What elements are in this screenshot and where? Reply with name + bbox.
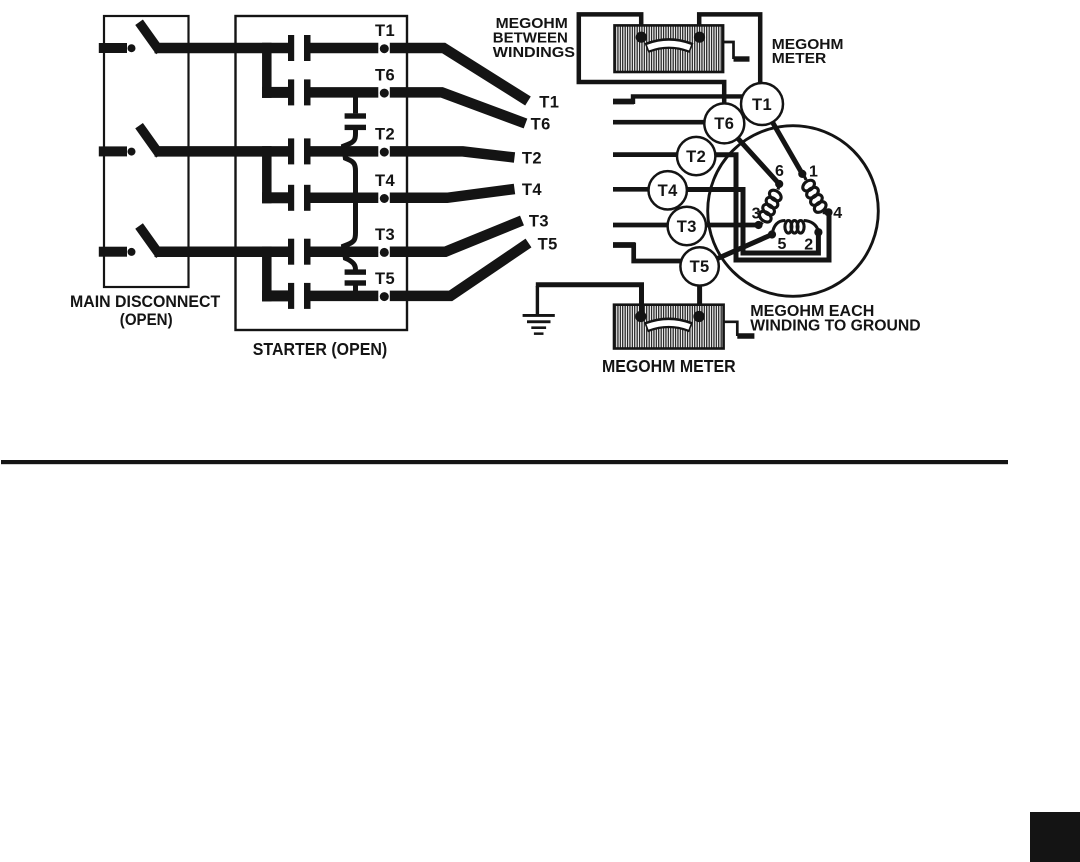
svg-text:STARTER (OPEN): STARTER (OPEN) — [253, 339, 387, 359]
capacitor C2 top plate — [345, 269, 366, 274]
wire T2 from switch to contact — [155, 146, 290, 157]
svg-text:T1: T1 — [539, 93, 559, 111]
terminal dot on line T5 — [378, 289, 380, 302]
megohm meter (bottom) right terminal dot — [693, 311, 704, 322]
main disconnect box — [104, 16, 189, 287]
contact T5 right bar — [304, 283, 311, 309]
winding coil 5-2 loops — [785, 221, 804, 234]
winding coil 1-4 entry tail — [802, 174, 806, 180]
capacitor C1 bottom plate — [345, 125, 366, 130]
test lead wire T5 stub — [613, 242, 635, 248]
svg-text:T2: T2 — [375, 126, 395, 144]
test lead wire T1 stub — [613, 99, 634, 105]
contact T1 right bar — [304, 35, 311, 61]
top meter probe tip — [734, 56, 750, 61]
branch wire T3 line down to T5 contact — [262, 246, 272, 301]
wire T1 from switch to contact — [155, 43, 290, 54]
svg-text:T2: T2 — [686, 148, 706, 166]
wire ground to bottom meter left terminal — [536, 286, 539, 314]
svg-text:WINDING TO GROUND: WINDING TO GROUND — [750, 318, 920, 335]
svg-text:T5: T5 — [538, 235, 558, 253]
svg-text:T4: T4 — [375, 172, 395, 190]
lead T4 to right — [390, 189, 515, 198]
test lead wire T1 step and run to circle T1 — [633, 96, 745, 104]
top meter probe wire — [724, 42, 734, 59]
svg-text:T1: T1 — [375, 22, 395, 40]
svg-text:T3: T3 — [677, 218, 697, 236]
svg-text:T4: T4 — [522, 181, 542, 199]
capacitor C2 bottom plate — [345, 280, 366, 285]
svg-text:MEGOHM: MEGOHM — [496, 16, 568, 32]
svg-text:(OPEN): (OPEN) — [120, 311, 173, 329]
branch wire T2 line down to T4 contact — [262, 146, 272, 203]
wire T4 contact to terminal dot — [310, 193, 380, 204]
capacitor C1 top plate — [345, 113, 366, 118]
wire: top meter right terminal loop to circle T1 — [699, 14, 760, 85]
wire circle T2 down and around to winding terminal 4 — [696, 155, 829, 260]
megohm meter (top) scale arc — [647, 44, 692, 49]
svg-text:T6: T6 — [531, 115, 551, 133]
winding coil 6-3 entry tail — [778, 184, 779, 190]
megohm meter (bottom) left terminal dot — [635, 311, 646, 322]
wire circle T5 down to bottom meter — [697, 266, 702, 317]
terminal dot on line T1 — [378, 42, 380, 55]
svg-text:5: 5 — [778, 236, 787, 253]
page corner black block — [1030, 812, 1080, 862]
branch wire T1 line down to T6 contact — [262, 43, 272, 98]
contact T3 left bar — [288, 239, 294, 265]
svg-text:T2: T2 — [522, 149, 542, 167]
winding coil 1-4 — [801, 178, 828, 214]
terminal dot on line T4 — [378, 191, 380, 204]
wire T6 contact to terminal dot — [310, 87, 380, 98]
lead T6 to right — [390, 92, 526, 123]
contact T6 right bar — [304, 79, 311, 105]
svg-text:T1: T1 — [752, 96, 772, 114]
megohm meter (top) right terminal dot — [694, 32, 705, 43]
motor stator circle — [708, 126, 879, 297]
svg-text:T5: T5 — [690, 258, 710, 276]
horizontal rule under figure — [1, 460, 1008, 464]
svg-text:4: 4 — [833, 205, 842, 222]
svg-text:T4: T4 — [658, 182, 678, 200]
terminal dot on line T6 — [378, 86, 380, 99]
lead T5 to right — [390, 243, 529, 296]
wire T3 from switch to contact — [155, 246, 290, 257]
test point circle T4 — [649, 171, 687, 209]
megohm meter (top) hatched body — [615, 25, 724, 72]
ground loop horizontal to meter — [536, 285, 642, 315]
interlock wire upper segment — [353, 92, 358, 113]
wire circle T1 to winding terminal 1 — [762, 104, 802, 174]
contact T1 left bar — [288, 35, 294, 61]
svg-text:METER: METER — [772, 50, 827, 67]
winding coil 6-3 exit tail — [759, 223, 763, 226]
test point circle T5 — [680, 247, 718, 285]
winding terminal dot 1 — [798, 170, 806, 178]
interlock wire middle segment with hops over T2 and T3 — [344, 130, 356, 270]
svg-text:T3: T3 — [529, 212, 549, 230]
contact T2 left bar — [288, 138, 294, 164]
svg-text:T3: T3 — [375, 226, 395, 244]
lead T1 to right — [390, 48, 528, 101]
terminal dot on line T2 — [378, 145, 380, 158]
wire: top meter left terminal loop to circle T6 — [579, 14, 724, 104]
switch SW1 stub — [99, 43, 127, 53]
wire T1 contact to terminal dot — [310, 43, 380, 54]
svg-text:3: 3 — [752, 206, 761, 223]
switch SW3 hinge dot — [128, 248, 136, 256]
winding terminal dot 2 — [814, 228, 822, 236]
contact T2 right bar — [304, 138, 311, 164]
svg-text:MEGOHM METER: MEGOHM METER — [602, 356, 736, 376]
test point circle T3 — [668, 207, 706, 245]
svg-text:2: 2 — [804, 237, 813, 254]
contact T6 left bar — [288, 79, 294, 105]
switch SW1 hinge dot — [128, 44, 136, 52]
winding coil 5-2 exit curve — [804, 221, 819, 232]
svg-text:1: 1 — [809, 163, 818, 180]
winding terminal dot 4 — [824, 208, 832, 216]
megohm meter (top) left terminal dot — [636, 32, 647, 43]
svg-text:6: 6 — [775, 163, 784, 180]
svg-text:T6: T6 — [714, 115, 734, 133]
lead T3 to right — [390, 221, 522, 252]
megohm meter (bottom) scale arc — [646, 323, 691, 328]
test lead wire T4 — [613, 187, 651, 192]
winding coil 1-4 exit tail — [823, 211, 829, 215]
test lead wire T6 — [613, 120, 707, 125]
contact T4 right bar — [304, 185, 311, 211]
switch SW1 blade (open) — [142, 26, 157, 48]
winding coil 6-3 — [757, 188, 783, 224]
starter box — [236, 16, 408, 330]
winding terminal dot 3 — [754, 221, 762, 229]
switch SW3 stub — [99, 247, 127, 257]
ground symbol — [523, 314, 555, 335]
svg-text:WINDINGS: WINDINGS — [493, 45, 575, 61]
wire circle T5 to winding terminal 5 — [700, 235, 772, 267]
switch SW2 hinge dot — [128, 148, 136, 156]
test lead wire T3 to winding dot 3 — [613, 223, 759, 228]
winding terminal dot 6 — [775, 180, 783, 188]
test point circle T1 — [741, 83, 783, 125]
bottom meter probe tip — [737, 333, 754, 339]
wire T2 contact to terminal dot — [310, 146, 380, 157]
switch SW3 blade (open) — [142, 230, 157, 252]
bottom meter probe wire — [724, 322, 738, 336]
winding terminal dot 5 — [768, 230, 776, 238]
wire T5 contact to terminal dot — [310, 291, 380, 302]
wire T3 contact to terminal dot — [310, 246, 380, 257]
test point circle T6 — [704, 103, 744, 143]
switch SW2 stub — [99, 146, 127, 156]
contact T4 left bar — [288, 185, 294, 211]
wire circle T6 to winding terminal 6 — [724, 123, 779, 184]
test lead wire T2 — [613, 152, 680, 157]
lead T2 to right — [390, 151, 515, 157]
switch SW2 blade (open) — [142, 130, 157, 152]
svg-text:T5: T5 — [375, 270, 395, 288]
winding coil 5-2 entry curve — [772, 220, 785, 234]
wire circle T4 down and around to winding terminal 2 — [668, 190, 818, 254]
svg-text:MAIN DISCONNECT: MAIN DISCONNECT — [70, 293, 220, 311]
contact T5 left bar — [288, 283, 294, 309]
test lead wire T5 step down and run to circle T5 — [634, 243, 684, 262]
interlock wire lower segment — [353, 285, 358, 296]
megohm meter (bottom) hatched body — [614, 305, 724, 349]
svg-text:T6: T6 — [375, 67, 395, 85]
contact T3 right bar — [304, 239, 311, 265]
test point circle T2 — [677, 137, 715, 175]
terminal dot on line T3 — [378, 245, 380, 258]
